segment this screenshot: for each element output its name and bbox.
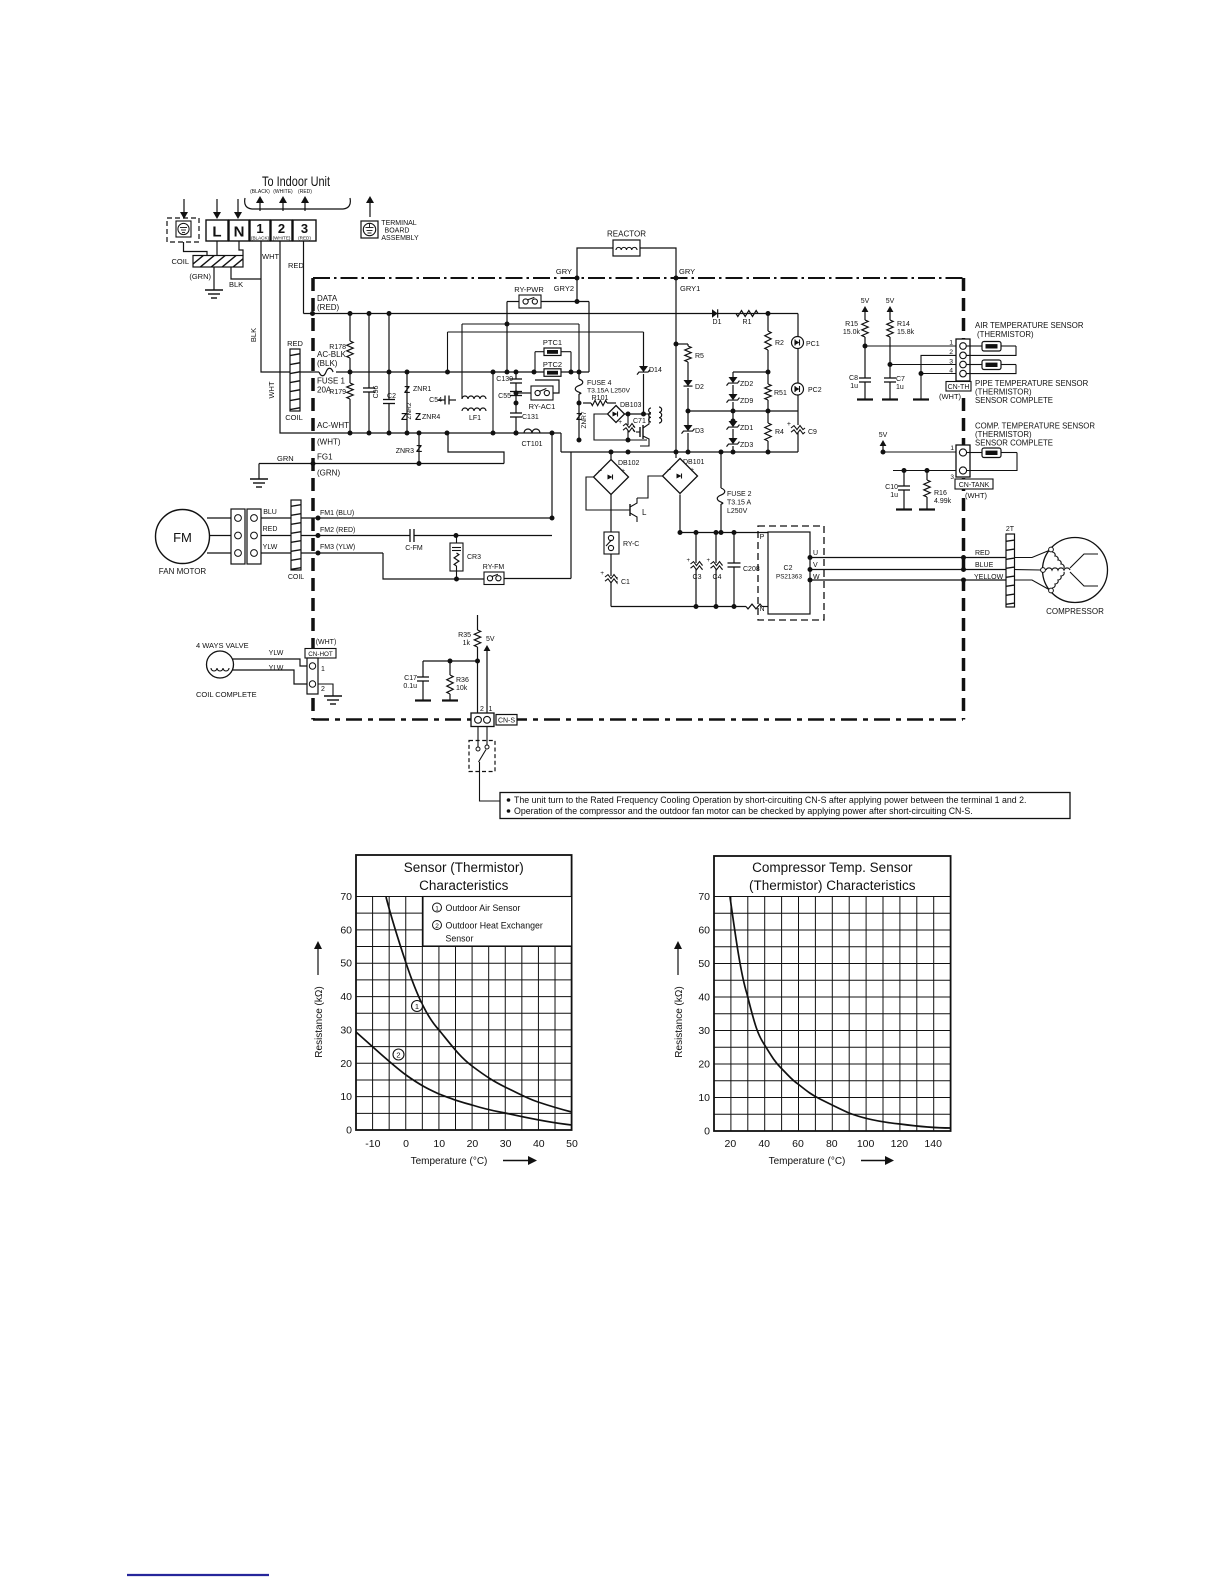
svg-text:PS21363: PS21363 (776, 574, 802, 581)
label DATA (RED) (317, 294, 340, 312)
label pipe temperature sensor (975, 379, 1089, 405)
terminal board L N 1 2 3 (206, 220, 316, 241)
fuse F4 (575, 372, 630, 406)
left graph x axis label (411, 1156, 537, 1167)
wire N to coil bar (239, 241, 243, 256)
thermistor pipe sensor (966, 360, 1016, 374)
svg-text:R36: R36 (456, 677, 469, 684)
dashed earth box (167, 218, 199, 242)
svg-text:COIL: COIL (285, 413, 303, 422)
svg-text:U: U (813, 550, 818, 557)
left graph x labels (365, 1138, 578, 1150)
label terminal board assembly (381, 220, 419, 242)
resistor R2 (765, 314, 784, 385)
connector CN-S (471, 713, 494, 727)
svg-text:Z: Z (404, 385, 410, 396)
svg-text:GRY2: GRY2 (554, 284, 574, 293)
terminal board assembly arrow (366, 196, 374, 217)
svg-text:R179: R179 (329, 389, 346, 396)
fan connector (231, 509, 261, 564)
capacitor C9 (787, 411, 817, 452)
svg-text:C1: C1 (621, 579, 630, 586)
left graph legend box (423, 897, 572, 947)
zener ZD9 (727, 394, 754, 421)
note line 1 (507, 795, 1027, 805)
svg-text:1u: 1u (890, 492, 898, 499)
wire FM2b (414, 533, 552, 538)
left graph outer box (356, 855, 572, 1130)
svg-text:D3: D3 (695, 428, 704, 435)
connector CN-HOT (307, 658, 318, 694)
wire GRN (259, 463, 313, 465)
svg-text:Sensor (Thermistor): Sensor (Thermistor) (404, 860, 524, 875)
left graph curve 1 (386, 897, 572, 1112)
svg-text:GRY1: GRY1 (680, 284, 700, 293)
svg-text:N: N (234, 224, 245, 241)
pcb boundary right dashed (962, 278, 966, 720)
svg-text:TERMINAL: TERMINAL (381, 220, 417, 227)
optocoupler PC2 (792, 383, 822, 425)
svg-text:GRY: GRY (556, 267, 572, 276)
incoming supply arrows (180, 199, 242, 219)
wire CN-TANK pin3 rail (893, 468, 960, 473)
capacitor C7 (882, 376, 905, 400)
left curve marker 2 (393, 1049, 404, 1060)
resistor R16 (919, 471, 952, 510)
svg-text:3: 3 (949, 359, 953, 366)
thermistor comp sensor (967, 448, 1017, 471)
svg-text:(BLACK): (BLACK) (250, 189, 270, 195)
svg-text:30: 30 (500, 1138, 512, 1150)
label BLK top (229, 280, 243, 289)
svg-text:FM3 (YLW): FM3 (YLW) (320, 544, 355, 551)
wire DB101 bottom (678, 495, 683, 536)
capacitor C17 (403, 661, 431, 701)
svg-text:60: 60 (792, 1138, 804, 1150)
svg-text:ZNR4: ZNR4 (422, 414, 440, 421)
svg-text:CT101: CT101 (521, 441, 542, 448)
label FM2 (RED) (320, 527, 355, 534)
wire CT101 out (560, 433, 562, 452)
terminal board assembly symbol (361, 221, 378, 238)
svg-text:L: L (642, 508, 647, 517)
wire RED from terminal 3 (303, 241, 305, 314)
svg-text:The unit turn to the Rated Fre: The unit turn to the Rated Frequency Coo… (514, 795, 1026, 805)
coil hatched bar horizontal (182, 193, 248, 319)
current transformer CT101 (521, 429, 542, 448)
label To Indoor Unit (262, 173, 330, 189)
label REACTOR (607, 230, 646, 239)
svg-text:−: − (667, 467, 671, 474)
svg-text:C55: C55 (498, 393, 511, 400)
svg-text:R16: R16 (934, 490, 947, 497)
label RED top (288, 261, 304, 270)
supply 5V d (484, 636, 495, 713)
svg-text:COIL COMPLETE: COIL COMPLETE (196, 690, 257, 699)
svg-text:(BLK): (BLK) (317, 359, 338, 368)
svg-text:1k: 1k (463, 640, 471, 647)
diode D2 (684, 380, 705, 411)
reactor (613, 240, 640, 256)
svg-text:+: + (621, 468, 625, 475)
varistor ZNR3 (396, 433, 422, 464)
resistor R15 (843, 320, 868, 378)
resistor R35 (458, 615, 481, 713)
wire bar to comp red (1015, 551, 1050, 558)
label (GRN) (189, 272, 211, 281)
wire R14 to pin3 (888, 362, 961, 367)
wire valve pin1 (233, 659, 308, 666)
svg-text:LF1: LF1 (469, 415, 481, 422)
right graph outer box (714, 856, 951, 1131)
fan motor circle (156, 510, 210, 564)
svg-text:50: 50 (340, 958, 352, 970)
label GRY right (679, 267, 695, 276)
svg-text:YLW: YLW (269, 665, 284, 672)
svg-text:BLU: BLU (263, 509, 277, 516)
igbt Q1 (636, 414, 651, 446)
svg-text:60: 60 (340, 924, 352, 936)
svg-text:3: 3 (301, 221, 308, 236)
zener ZD3 (727, 438, 754, 452)
svg-text:+: + (787, 421, 791, 428)
svg-text:BLUE: BLUE (975, 562, 994, 569)
resistor R101 (583, 395, 616, 406)
capacitor C1 (600, 554, 630, 607)
capacitor C96 (363, 314, 380, 434)
label WHT rotated (267, 381, 276, 398)
svg-text:YELLOW: YELLOW (974, 574, 1004, 581)
svg-text:RED: RED (975, 550, 990, 557)
svg-text:CN-S: CN-S (498, 718, 515, 725)
svg-text:40: 40 (533, 1138, 545, 1150)
left graph y axis label (314, 941, 325, 1058)
transformer coils (649, 407, 662, 423)
coil hatched bar vertical (228, 326, 304, 430)
svg-text:RY-PWR: RY-PWR (514, 285, 544, 294)
varistor ZNR2 (401, 402, 413, 423)
svg-text:SENSOR COMPLETE: SENSOR COMPLETE (975, 439, 1053, 448)
wire FM2a (301, 533, 410, 538)
wire AC-BLK rail (336, 370, 589, 375)
svg-text:1u: 1u (896, 384, 904, 391)
wire switch to note (480, 762, 501, 801)
capacitor C2 (383, 314, 396, 434)
pcb boundary left dashed (311, 278, 315, 720)
capacitor C71 (618, 412, 646, 441)
svg-text:−: − (598, 468, 602, 475)
label CN-TANK (955, 479, 993, 489)
svg-text:(WHT): (WHT) (965, 491, 988, 500)
right graph title (749, 860, 916, 893)
wire W yellow (808, 578, 1007, 583)
svg-text:D14: D14 (649, 367, 662, 374)
svg-text:(GRN): (GRN) (317, 469, 340, 478)
svg-text:(GRN): (GRN) (189, 272, 211, 281)
right graph x axis label (769, 1156, 894, 1167)
svg-text:20: 20 (467, 1138, 479, 1150)
capacitor C55 (498, 392, 522, 414)
svg-text:GRY: GRY (679, 267, 695, 276)
diode D3 (682, 411, 705, 452)
label comp temperature sensor (975, 422, 1095, 448)
resistor R178 (329, 314, 353, 384)
wire R5 top (676, 343, 688, 345)
label YLW 1 (269, 650, 284, 657)
capacitor C208 (728, 533, 760, 607)
left graph y labels (340, 891, 352, 1137)
svg-text:C208: C208 (743, 566, 760, 573)
svg-text:2: 2 (949, 349, 953, 356)
svg-text:D2: D2 (695, 384, 704, 391)
varistor ZNR4 (415, 412, 440, 423)
svg-text:1: 1 (321, 666, 325, 673)
svg-text:Temperature (°C): Temperature (°C) (769, 1156, 846, 1167)
svg-text:2: 2 (435, 923, 439, 930)
left legend item 2b (446, 934, 474, 944)
thermistor PTC1 (543, 338, 562, 356)
svg-text:CN-TANK: CN-TANK (959, 482, 990, 489)
label AC-WHT (WHT) (317, 421, 349, 447)
label BLK rotated (249, 328, 258, 342)
svg-text:R5: R5 (695, 353, 704, 360)
label CN-S (496, 715, 517, 726)
svg-text:T3.15 A: T3.15 A (727, 500, 751, 507)
wire earth to coil (184, 242, 208, 256)
svg-text:(WHT): (WHT) (939, 392, 962, 401)
relay RY-AC1 (529, 386, 556, 411)
svg-text:ZNR1: ZNR1 (413, 386, 431, 393)
wire reactor right GRY1 (640, 248, 679, 458)
wire conn to coil (261, 518, 291, 553)
label FUSE 1 20A (317, 377, 346, 395)
svg-text:1: 1 (949, 340, 953, 347)
svg-text:0: 0 (346, 1125, 352, 1137)
svg-text:Resistance (kΩ): Resistance (kΩ) (674, 986, 685, 1057)
label WHT top (262, 252, 279, 261)
svg-text:C2: C2 (784, 565, 793, 572)
fan coil bar (221, 477, 305, 581)
svg-text:2: 2 (480, 706, 484, 713)
svg-text:C9: C9 (808, 429, 817, 436)
compressor winding Y (1046, 552, 1098, 588)
svg-text:REACTOR: REACTOR (607, 230, 646, 239)
thermistor PTC2 (543, 360, 562, 376)
svg-text:40: 40 (340, 991, 352, 1003)
left legend item 1 (433, 903, 521, 913)
wire D14 feed (445, 332, 644, 375)
wire FM3 (301, 551, 484, 580)
capacitor C3 (686, 533, 702, 607)
shunt resistor (746, 604, 768, 609)
wire R15 to pin1 (863, 344, 961, 349)
svg-text:10: 10 (433, 1138, 445, 1150)
svg-text:R14: R14 (897, 321, 910, 328)
label AC-BLK (BLK) (317, 350, 347, 368)
resistor R14 (887, 320, 915, 378)
n rail (611, 604, 746, 609)
svg-text:(WHT): (WHT) (317, 438, 341, 447)
wire igbt to DB101 (637, 476, 663, 498)
svg-text:(BLACK): (BLACK) (251, 236, 270, 241)
wire RY-AC1 left (514, 391, 532, 396)
svg-text:15.0k: 15.0k (843, 329, 861, 336)
capacitor C-FM (405, 529, 423, 552)
capacitor C131 (510, 413, 539, 436)
label COIL mid (285, 413, 303, 422)
earth ground main (205, 267, 223, 298)
diode D1 (712, 309, 722, 326)
pin numbers CN-TH (949, 340, 953, 375)
choke LF1 (462, 372, 493, 433)
wire RY-AC1 right (535, 380, 559, 393)
svg-text:YLW: YLW (269, 650, 284, 657)
pcb boundary bottom dash-dot (313, 718, 963, 720)
svg-text:(RED): (RED) (298, 236, 311, 241)
fuse F1 (313, 368, 333, 376)
pcb boundary top dash-dot (313, 277, 963, 279)
svg-text:To Indoor Unit: To Indoor Unit (262, 173, 330, 189)
igbt L (586, 477, 647, 522)
optocoupler PC1 (792, 314, 820, 384)
svg-text:FUSE 2: FUSE 2 (727, 491, 752, 498)
svg-text:30: 30 (698, 1025, 710, 1037)
svg-text:C71: C71 (633, 418, 646, 425)
label BLUE (975, 562, 994, 569)
label GRY1 (680, 284, 700, 293)
svg-text:CN-HOT: CN-HOT (308, 651, 333, 658)
label BLU (263, 509, 277, 516)
svg-text:(WHITE): (WHITE) (273, 189, 293, 195)
svg-text:0: 0 (403, 1138, 409, 1150)
svg-text:COMPRESSOR: COMPRESSOR (1046, 607, 1104, 616)
svg-text:ZD2: ZD2 (740, 381, 753, 388)
svg-text:R15: R15 (845, 321, 858, 328)
connector CN-TANK (956, 445, 970, 477)
svg-text:CR3: CR3 (467, 554, 481, 561)
wire U red (808, 555, 1007, 560)
wires motor to connector (207, 518, 231, 553)
svg-text:R35: R35 (458, 632, 471, 639)
resistor R36 (442, 661, 469, 701)
left legend item 2 (433, 921, 543, 931)
svg-text:Outdoor Air Sensor: Outdoor Air Sensor (446, 903, 521, 913)
svg-text:0: 0 (704, 1126, 710, 1138)
svg-text:ZD9: ZD9 (740, 398, 753, 405)
pin numbers CN-TANK (950, 445, 954, 481)
diode D14 (637, 332, 662, 414)
label RED fm (263, 526, 278, 533)
svg-text:2: 2 (396, 1051, 400, 1060)
left curve marker 1 (412, 1001, 423, 1012)
svg-text:FM2 (RED): FM2 (RED) (320, 527, 355, 534)
wire DB103 to D14 (625, 412, 647, 417)
arrows to indoor unit (256, 196, 309, 211)
resistor R5 (685, 344, 704, 380)
svg-text:ZD1: ZD1 (740, 425, 753, 432)
svg-text:4 WAYS VALVE: 4 WAYS VALVE (196, 641, 249, 650)
svg-text:DATA: DATA (317, 294, 338, 303)
svg-text:10k: 10k (456, 685, 468, 692)
capacitor C54 (429, 396, 456, 405)
svg-text:ZNR7: ZNR7 (581, 411, 588, 428)
wire bar to comp yellow (1015, 580, 1050, 590)
svg-text:5V: 5V (861, 298, 870, 305)
svg-text:Outdoor Heat Exchanger: Outdoor Heat Exchanger (446, 921, 543, 931)
svg-text:Z: Z (416, 444, 422, 455)
resistor R179 (329, 383, 353, 433)
resistor R1 (736, 311, 758, 327)
wire FM1 (301, 433, 555, 521)
label GRY2 (554, 284, 574, 293)
supply 5V a (861, 298, 870, 320)
capacitor C8 (849, 375, 873, 400)
svg-text:50: 50 (566, 1138, 578, 1150)
wire reactor left GRY2 (575, 248, 614, 302)
thermistor air sensor (966, 342, 1016, 356)
svg-text:R51: R51 (774, 390, 787, 397)
svg-text:100: 100 (857, 1138, 875, 1150)
p rail (680, 530, 768, 535)
wire bar to comp blue (1015, 569, 1041, 572)
label N (759, 606, 764, 613)
svg-text:DB103: DB103 (620, 402, 642, 409)
svg-text:C4: C4 (713, 574, 722, 581)
wire DB102 top (610, 452, 612, 460)
svg-text:2T: 2T (1006, 526, 1015, 533)
wire ZD2 top (733, 370, 771, 375)
wire color sublabels (250, 189, 312, 195)
svg-text:80: 80 (826, 1138, 838, 1150)
svg-text:40: 40 (698, 992, 710, 1004)
connector CN-TH (956, 339, 970, 381)
label U V W (813, 550, 820, 581)
label FM1 (BLU) (320, 510, 354, 517)
svg-text:FAN MOTOR: FAN MOTOR (159, 567, 207, 576)
svg-text:C131: C131 (522, 414, 539, 421)
svg-text:FM1 (BLU): FM1 (BLU) (320, 510, 354, 517)
label 4 WAYS VALVE (196, 641, 249, 650)
supply 5V c (879, 432, 888, 452)
svg-text:50: 50 (698, 958, 710, 970)
svg-text:Resistance (kΩ): Resistance (kΩ) (314, 986, 325, 1057)
svg-text:SENSOR COMPLETE: SENSOR COMPLETE (975, 396, 1053, 405)
svg-text:FUSE 1: FUSE 1 (317, 377, 346, 386)
svg-text:(RED): (RED) (317, 303, 340, 312)
svg-text:ZD3: ZD3 (740, 442, 753, 449)
label CN-TANK WHT (965, 491, 988, 500)
svg-text:140: 140 (924, 1138, 942, 1150)
right graph curve (730, 897, 951, 1128)
svg-text:R2: R2 (775, 340, 784, 347)
svg-text:RED: RED (287, 339, 303, 348)
label GRY left (556, 267, 572, 276)
svg-text:1: 1 (415, 1002, 419, 1011)
ptc rails (535, 352, 571, 380)
svg-text:40: 40 (758, 1138, 770, 1150)
wire pin2 branch (919, 355, 961, 376)
wire CN-HOT pin2 ground (318, 684, 342, 704)
svg-text:+: + (600, 570, 604, 577)
svg-text:P: P (760, 534, 765, 541)
wire AC-WHT rail (313, 431, 561, 436)
wire WHT from terminal 2 (280, 241, 313, 433)
svg-text:(THERMISTOR): (THERMISTOR) (977, 330, 1034, 339)
svg-text:L250V: L250V (727, 508, 748, 515)
wire pin4 branch (913, 374, 960, 400)
varistor ZNR1 (404, 372, 431, 433)
svg-text:(WHITE): (WHITE) (273, 236, 291, 241)
